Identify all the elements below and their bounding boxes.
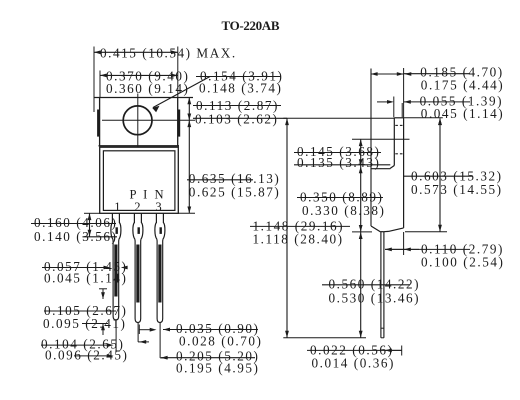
svg-text:1.118 (28.40): 1.118 (28.40)	[253, 232, 344, 247]
svg-text:0.330 (8.38): 0.330 (8.38)	[302, 203, 385, 218]
svg-text:0.160 (4.06): 0.160 (4.06)	[34, 215, 117, 230]
svg-text:TO-220AB: TO-220AB	[222, 18, 280, 33]
svg-text:0.195 (4.95): 0.195 (4.95)	[176, 361, 259, 376]
svg-text:0.100 (2.54): 0.100 (2.54)	[421, 255, 504, 270]
svg-text:0.103 (2.62): 0.103 (2.62)	[195, 112, 278, 127]
svg-text:0.014 (0.36): 0.014 (0.36)	[312, 356, 395, 371]
svg-text:1: 1	[114, 200, 120, 214]
svg-text:0.175 (4.44): 0.175 (4.44)	[421, 78, 504, 93]
svg-text:0.573 (14.55): 0.573 (14.55)	[411, 182, 503, 197]
svg-text:0.148 (3.74): 0.148 (3.74)	[199, 81, 282, 96]
svg-text:0.135 (3.43): 0.135 (3.43)	[297, 155, 380, 170]
svg-text:3: 3	[155, 200, 161, 214]
svg-text:0.028 (0.70): 0.028 (0.70)	[179, 334, 262, 349]
svg-text:0.045 (1.14): 0.045 (1.14)	[44, 271, 127, 286]
svg-text:0.096 (2.45): 0.096 (2.45)	[45, 348, 128, 363]
svg-text:2: 2	[134, 200, 140, 214]
svg-text:0.625 (15.87): 0.625 (15.87)	[189, 185, 281, 200]
svg-text:0.415 (10.54) MAX.: 0.415 (10.54) MAX.	[100, 46, 237, 61]
svg-text:0.360 (9.14): 0.360 (9.14)	[106, 81, 189, 96]
svg-text:0.560 (14.22): 0.560 (14.22)	[329, 277, 421, 292]
svg-text:0.095 (2.41): 0.095 (2.41)	[43, 316, 126, 331]
svg-text:0.140 (3.56): 0.140 (3.56)	[34, 229, 117, 244]
svg-text:0.045 (1.14): 0.045 (1.14)	[421, 106, 504, 121]
svg-text:0.530 (13.46): 0.530 (13.46)	[329, 291, 421, 306]
